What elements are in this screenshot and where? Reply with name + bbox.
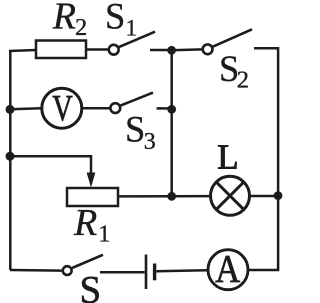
svg-text:3: 3 xyxy=(144,129,156,155)
svg-text:A: A xyxy=(215,248,240,291)
svg-text:S: S xyxy=(105,0,125,36)
svg-text:1: 1 xyxy=(98,222,110,248)
svg-text:S: S xyxy=(80,268,102,303)
svg-text:V: V xyxy=(52,89,73,130)
svg-text:2: 2 xyxy=(75,14,87,41)
svg-text:S: S xyxy=(125,109,145,150)
svg-text:R: R xyxy=(52,0,76,37)
svg-text:L: L xyxy=(217,138,238,177)
svg-text:1: 1 xyxy=(126,15,138,40)
svg-text:2: 2 xyxy=(237,67,249,94)
svg-text:R: R xyxy=(73,202,97,244)
